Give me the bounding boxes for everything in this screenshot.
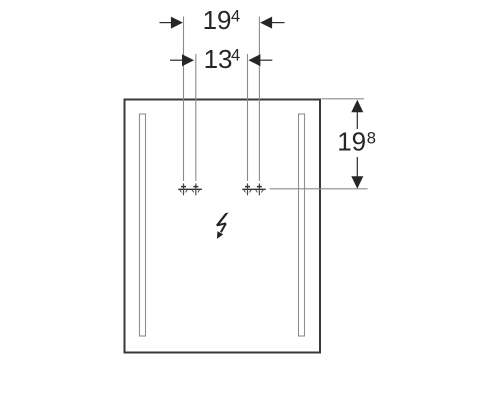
left LED light strip <box>140 114 146 336</box>
dimension text 13^4 <box>204 44 241 74</box>
dimension 13.4 left arrow <box>170 54 194 66</box>
fixing screw symbol A (x=183.5) <box>180 183 187 195</box>
dimension 19.8 vertical line with arrows <box>351 100 363 189</box>
svg-text:8: 8 <box>367 129 376 147</box>
extension line top (19.8 dim, from mirror top edge) <box>322 98 365 100</box>
svg-text:19: 19 <box>337 127 366 157</box>
lightning bolt electrical connection symbol <box>216 213 229 239</box>
svg-text:13: 13 <box>204 44 233 74</box>
extension line bottom (19.8 dim, from fixing level) <box>270 188 368 190</box>
dimension text 19^4 <box>203 5 241 35</box>
dimension 13.4 right arrow <box>248 54 272 66</box>
right LED light strip <box>299 114 305 336</box>
dimension 19.4 right arrow <box>260 17 284 29</box>
extension line outer-left (19.4 dim) <box>183 17 185 182</box>
extension line inner-right (13.4 dim) <box>247 54 249 181</box>
extension line inner-left (13.4 dim) <box>195 54 197 181</box>
svg-text:4: 4 <box>231 8 240 26</box>
fixing screw symbol B (x=195.8) <box>192 183 199 195</box>
fixing screw symbol D (x=259.4) <box>256 183 263 195</box>
left fixing group baseline <box>178 188 202 190</box>
svg-text:19: 19 <box>203 5 232 35</box>
extension line outer-right (19.4 dim) <box>258 17 260 182</box>
dimension 19.4 left arrow <box>160 17 183 29</box>
mirror body outline <box>125 100 321 353</box>
fixing screw symbol C (x=247.5) <box>244 183 251 195</box>
svg-text:4: 4 <box>231 47 240 65</box>
dimension text 19^8 <box>337 127 376 157</box>
right fixing group baseline <box>242 188 265 190</box>
